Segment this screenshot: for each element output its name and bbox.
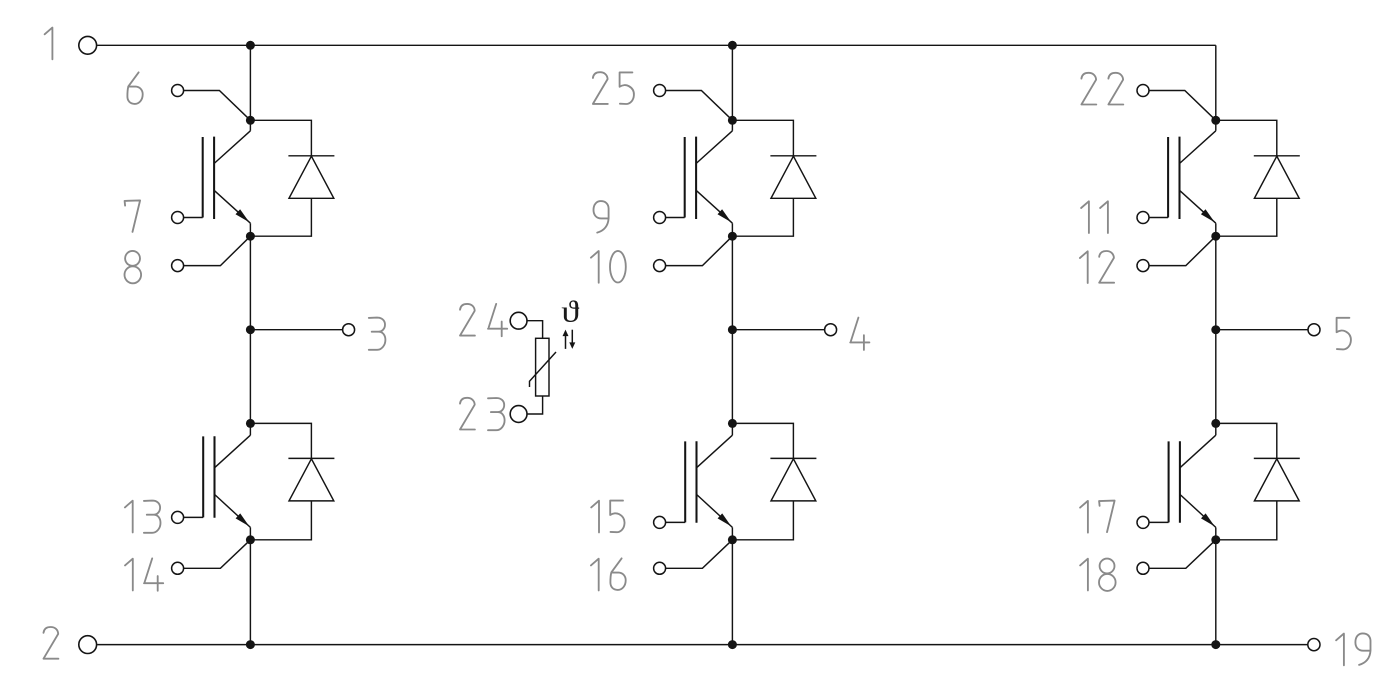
diode top leg 5 cathode bar (1254, 155, 1300, 157)
wire bus middle leg 5 (1215, 223, 1217, 435)
igbt top leg 3 emitter lead (214, 190, 250, 223)
pin 6 wire (184, 91, 251, 121)
node top rail leg A (246, 41, 255, 50)
pin 18 terminal (1137, 562, 1149, 574)
diode bottom leg 4 cathode bar (770, 457, 816, 459)
pin 6 terminal (172, 85, 184, 97)
label 14 (125, 558, 163, 590)
pin 17 terminal (1137, 516, 1149, 528)
pin 25 wire (666, 91, 733, 121)
diode top leg 5 triangle (1254, 156, 1299, 198)
node collector bottom leg 4 (728, 419, 737, 428)
pin 10 terminal (654, 260, 666, 272)
igbt bottom leg 4 body bar (695, 441, 697, 523)
terminal pin 4 (825, 324, 837, 336)
temperature arrow up (563, 330, 569, 349)
node emitter top leg 3 (246, 232, 255, 241)
wire output 4 (732, 329, 824, 331)
pin 23 terminal (510, 406, 527, 423)
wire bus middle leg 3 (249, 223, 251, 435)
pin 23 wire (527, 396, 543, 414)
pin 9 terminal (654, 212, 666, 224)
diode top leg 3 wires (250, 120, 311, 236)
diode bottom leg 4 wires (732, 423, 793, 539)
igbt bottom leg 3 gate bar (202, 436, 204, 517)
igbt bottom leg 3 emitter lead (215, 494, 251, 527)
igbt bottom leg 5 emitter lead (1180, 494, 1216, 527)
igbt top leg 4 emitter lead (696, 190, 732, 223)
diode top leg 4 wires (732, 120, 793, 236)
pin 17 wire (1149, 521, 1169, 523)
thermistor R-NTC body (536, 338, 549, 396)
igbt bottom leg 4 collector lead (697, 435, 733, 468)
terminal pin 5 (1308, 324, 1320, 336)
pin 10 wire (666, 236, 733, 265)
label theta (561, 295, 579, 329)
igbt bottom leg 3 body bar (213, 436, 215, 518)
label 13 (125, 501, 161, 533)
igbt top leg 4 collector lead (696, 131, 732, 164)
node top rail leg B (728, 41, 737, 50)
node emitter top leg 4 (728, 232, 737, 241)
pin 11 wire (1149, 217, 1168, 219)
pin 24 terminal (510, 312, 527, 329)
igbt top leg 4 gate bar (684, 137, 686, 218)
igbt bottom leg 4 gate bar (684, 441, 686, 522)
wire bus upper leg 3 (249, 45, 251, 131)
igbt bottom leg 5 body bar (1179, 441, 1181, 523)
wire output 3 (250, 329, 342, 331)
diode top leg 3 triangle (289, 156, 334, 198)
igbt top leg 5 emitter arrow (1201, 209, 1215, 222)
terminal pin 2 (79, 636, 97, 654)
igbt bottom leg 4 emitter arrow (718, 513, 732, 526)
pin 18 wire (1149, 540, 1216, 569)
igbt top leg 4 body bar (695, 137, 697, 219)
igbt bottom leg 3 collector lead (215, 435, 251, 468)
pin 25 terminal (654, 85, 666, 97)
igbt top leg 5 body bar (1178, 137, 1180, 219)
node emitter bottom leg 5 (1211, 535, 1220, 544)
wire output 5 (1216, 329, 1308, 331)
node output 5 (1211, 325, 1220, 334)
node emitter top leg 5 (1211, 232, 1220, 241)
igbt bottom leg 5 gate bar (1168, 441, 1170, 522)
label 25 (593, 72, 634, 104)
terminal pin 1 (79, 36, 97, 54)
igbt top leg 4 emitter arrow (718, 209, 732, 222)
igbt bottom leg 4 emitter lead (697, 494, 733, 527)
pin 13 terminal (172, 511, 184, 523)
node bottom rail leg C (1211, 640, 1220, 649)
diode bottom leg 5 wires (1216, 423, 1277, 539)
igbt bottom leg 3 emitter arrow (236, 513, 250, 526)
label 16 (591, 558, 626, 590)
label 19 (1336, 633, 1370, 665)
wire bus upper leg 4 (731, 45, 733, 131)
wire bus lower leg 4 (731, 527, 733, 644)
label 17 (1080, 501, 1115, 533)
pin 8 wire (184, 236, 251, 265)
igbt top leg 3 collector lead (214, 131, 250, 164)
label 5 (1337, 318, 1351, 350)
node collector bottom leg 5 (1211, 419, 1220, 428)
label 12 (1080, 251, 1114, 283)
node output 3 (246, 325, 255, 334)
pin 15 terminal (654, 516, 666, 528)
label 10 (591, 251, 626, 283)
node collector top leg 5 (1211, 116, 1220, 125)
node collector top leg 4 (728, 116, 737, 125)
igbt top leg 5 emitter lead (1180, 190, 1216, 223)
label 18 (1080, 559, 1116, 591)
pin 12 terminal (1137, 260, 1149, 272)
igbt top leg 3 gate bar (202, 137, 204, 218)
label 22 (1081, 73, 1123, 105)
pin 7 wire (184, 217, 203, 219)
pin 12 wire (1149, 236, 1216, 265)
igbt top leg 3 emitter arrow (236, 209, 250, 222)
label 2 (44, 627, 59, 659)
label 24 (460, 304, 507, 336)
node output 4 (728, 325, 737, 334)
node collector bottom leg 3 (246, 419, 255, 428)
pin 15 wire (666, 521, 686, 523)
wire bus lower leg 5 (1215, 527, 1217, 644)
label 23 (460, 398, 505, 430)
pin 24 wire (527, 321, 543, 339)
igbt bottom leg 5 collector lead (1180, 435, 1216, 468)
label 8 (124, 251, 141, 283)
label 15 (591, 501, 624, 533)
node collector top leg 3 (246, 116, 255, 125)
pin 16 wire (666, 540, 733, 569)
igbt bottom leg 5 emitter arrow (1201, 513, 1215, 526)
wire bus upper leg 5 (1215, 45, 1217, 131)
diode bottom leg 5 triangle (1254, 459, 1299, 501)
svg-text:ϑ: ϑ (561, 295, 579, 329)
pin 14 terminal (172, 562, 184, 574)
wire bus middle leg 4 (731, 223, 733, 435)
diode bottom leg 3 triangle (289, 459, 334, 501)
pin 8 terminal (172, 260, 184, 272)
label 3 (369, 318, 386, 350)
diode bottom leg 4 triangle (771, 459, 816, 501)
label 7 (125, 200, 141, 232)
label 9 (594, 201, 609, 233)
igbt top leg 5 gate bar (1167, 137, 1169, 218)
label 6 (127, 72, 142, 104)
node bottom rail leg A (246, 640, 255, 649)
node emitter bottom leg 4 (728, 535, 737, 544)
wire DC+ top rail (97, 44, 1216, 46)
terminal pin 3 (343, 324, 355, 336)
diode bottom leg 3 cathode bar (288, 457, 334, 459)
diode top leg 5 wires (1216, 120, 1277, 236)
pin 7 terminal (172, 212, 184, 224)
diode bottom leg 3 wires (250, 423, 311, 539)
pin 14 wire (184, 540, 251, 569)
pin 16 terminal (654, 562, 666, 574)
thermistor R-NTC diagonal (530, 352, 557, 387)
pin 22 wire (1149, 91, 1216, 121)
wire bus lower leg 3 (249, 527, 251, 644)
label 1 (45, 28, 53, 60)
diode top leg 4 cathode bar (770, 155, 816, 157)
pin 11 terminal (1137, 212, 1149, 224)
diode bottom leg 5 cathode bar (1254, 457, 1300, 459)
igbt top leg 3 body bar (213, 137, 215, 219)
diode top leg 4 triangle (771, 156, 816, 198)
igbt top leg 5 collector lead (1180, 131, 1216, 164)
terminal pin 19 (1308, 639, 1320, 651)
node emitter bottom leg 3 (246, 535, 255, 544)
pin 13 wire (184, 516, 204, 518)
node bottom rail leg B (728, 640, 737, 649)
pin 22 terminal (1137, 85, 1149, 97)
label 11 (1081, 201, 1108, 233)
wire DC- bottom rail (97, 644, 1308, 646)
pin 9 wire (666, 217, 685, 219)
label 4 (850, 318, 869, 350)
temperature arrow down (569, 330, 575, 349)
diode top leg 3 cathode bar (288, 155, 334, 157)
